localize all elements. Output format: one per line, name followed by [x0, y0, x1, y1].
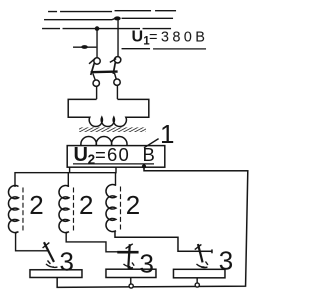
stub wire with arrow tap [73, 45, 96, 49]
svg-text:U: U [73, 144, 87, 166]
wire from L3 down to switch [96, 29, 98, 58]
electrode middle [126, 244, 133, 266]
inductor 2 right core [119, 186, 121, 230]
inductor 2 left core [22, 187, 24, 231]
svg-text:3: 3 [139, 248, 153, 278]
knife switch blade right [110, 59, 116, 74]
svg-text:2: 2 [79, 190, 93, 220]
arc sparks right [196, 262, 207, 268]
wire plate right to bus [196, 278, 198, 283]
wire inductor middle to electrode holder [66, 232, 117, 252]
knife switch lower contact right [114, 79, 120, 85]
electrode holder middle [117, 251, 138, 254]
phase line L3 [42, 28, 171, 30]
inductor 2 left winding [8, 186, 18, 233]
leader line to label 1 [144, 139, 159, 148]
junction on L3 [95, 26, 100, 31]
wire inductor right to electrode holder [115, 231, 212, 253]
label U1=380V [132, 29, 209, 48]
distribution bus under box [15, 167, 116, 187]
svg-text:В: В [142, 144, 154, 165]
phase line L2 [44, 18, 173, 20]
svg-text:1: 1 [160, 119, 174, 149]
electrode right [195, 244, 203, 262]
svg-text:2: 2 [126, 190, 140, 220]
workpiece plate right [173, 269, 225, 278]
phase line L1 [48, 10, 176, 13]
return wire box to right rail and bottom bus [57, 166, 248, 287]
wire from L2 down to switch [117, 18, 119, 56]
workpiece plate middle [106, 269, 156, 277]
inductor 2 right winding [106, 185, 116, 232]
wire plate middle to bus [130, 277, 132, 283]
transformer T core [79, 127, 146, 132]
arc sparks middle [123, 262, 134, 267]
svg-text:=60: =60 [95, 144, 130, 165]
arc sparks left [46, 260, 58, 267]
svg-text:2: 2 [88, 152, 96, 167]
inductor 2 middle winding [59, 186, 69, 233]
link to lower contact left [93, 73, 95, 80]
wire inductor left to electrode holder [16, 232, 49, 251]
knife switch blade left [89, 58, 95, 75]
workpiece plate left [30, 270, 82, 278]
secondary bus box [67, 146, 165, 168]
electrode left [43, 242, 54, 262]
link to lower contact right [114, 73, 116, 79]
label U2=60V [73, 144, 154, 167]
junction on L2 [114, 16, 121, 20]
underline of U1 label [122, 48, 207, 50]
knife switch lower contact left [93, 80, 99, 86]
transformer T primary winding [68, 99, 149, 126]
underline of U2 label [73, 163, 154, 165]
junction plate right [195, 283, 199, 287]
transformer T secondary winding [81, 137, 127, 146]
knife switch upper contact right [114, 57, 120, 63]
junction plate middle [129, 284, 133, 288]
svg-text:3: 3 [59, 246, 73, 276]
svg-text:3: 3 [219, 245, 233, 275]
junction on box bottom [142, 164, 146, 168]
svg-text:2: 2 [29, 190, 43, 220]
svg-text:U: U [132, 29, 144, 46]
switch linkage bar [91, 70, 118, 73]
knife switch upper contact left [94, 58, 100, 64]
svg-text:=380В: =380В [149, 29, 208, 45]
wire switch to transformer right [116, 85, 118, 99]
wire switch to transformer left [96, 86, 98, 99]
inductor 2 middle core [72, 187, 74, 231]
